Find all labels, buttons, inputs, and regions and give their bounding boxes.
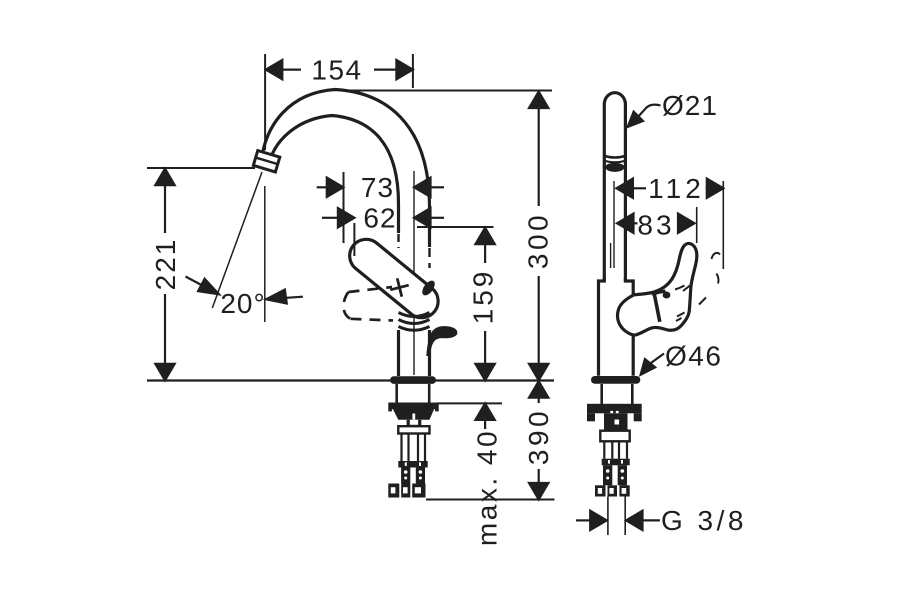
dim O46 leader [650,354,665,365]
body column (front) [599,278,605,376]
dim 221 [164,185,166,233]
hose couplings [388,484,425,498]
hollow box front [600,431,629,442]
dim 159 [484,244,486,263]
mounting cone [393,409,434,420]
base line [147,379,554,381]
body column [397,330,400,376]
dim 83 [617,214,634,233]
dim 390 [529,381,548,398]
handle lever (side view, stadium shape) [350,239,438,317]
angle arrows [186,277,205,287]
aerator dark ellipse [605,163,624,172]
dim 73 [343,172,345,243]
faucet centerline [413,171,415,375]
spout inner arc [269,116,399,234]
threaded rods front [604,441,627,458]
svg-text:159: 159 [468,269,499,325]
svg-text:154: 154 [311,55,362,86]
hatch details on lever [675,286,685,290]
temperature dot [663,292,671,299]
shaft below flange [395,384,398,403]
hollow box [398,426,429,433]
swivel rings below handle [399,313,430,317]
svg-text:112: 112 [648,173,705,204]
dim 159 top ext [417,226,494,228]
svg-text:83: 83 [637,210,674,241]
svg-text:300: 300 [523,212,554,269]
svg-text:20°: 20° [220,288,265,319]
svg-text:Ø21: Ø21 [662,90,718,121]
spout outer arc [262,90,430,248]
center column block [604,413,628,432]
dim 154 extension lines [264,54,266,150]
clamp band [398,461,427,468]
dashed alternate handle position [344,287,393,321]
dim 154 line + arrows [282,68,301,70]
handle + collar (front view) [618,243,697,335]
collar rim line [622,296,634,305]
dim G38 [576,519,591,521]
svg-text:62: 62 [363,203,396,234]
handle attach blob [420,278,437,297]
dim 221 top extension [147,167,255,169]
svg-text:221: 221 [150,238,181,291]
threaded rods [402,434,426,462]
base flange front [591,376,640,384]
spout outlet tip [253,151,279,172]
cup piece [407,420,422,427]
plus mark on handle [388,276,411,299]
dim 62 [353,223,355,256]
handle front edge bar [654,292,660,322]
dim 112 [633,187,646,189]
nut blocks front [603,465,612,485]
svg-text:73: 73 [361,172,394,203]
dim max40 [475,403,494,420]
mounting bar [388,403,438,410]
motion dashes [712,253,721,259]
shaft below flange front [600,384,603,404]
dim O21 leader [639,105,661,116]
riser tube with rounded top [604,93,625,281]
dim 300 [538,107,540,206]
hose couplings front [595,485,630,496]
angle 20 vertical line [264,186,266,322]
inner thin lines in tube [613,181,615,268]
svg-text:G 3/8: G 3/8 [661,505,747,536]
base flange [390,376,436,384]
nut blocks [401,468,410,484]
hidden tube edge dashes behind handle [397,234,399,248]
angle 20 slant line [212,172,262,308]
mounting bar front [587,404,642,414]
svg-text:Ø46: Ø46 [665,341,722,372]
clamp band front [602,459,630,466]
aerator band arcs [603,156,626,158]
svg-text:390: 390 [523,408,554,465]
ext line top of 300 [341,90,552,92]
shank lines [607,497,609,536]
black side lever hook [426,326,457,356]
svg-text:max. 40: max. 40 [472,429,503,546]
